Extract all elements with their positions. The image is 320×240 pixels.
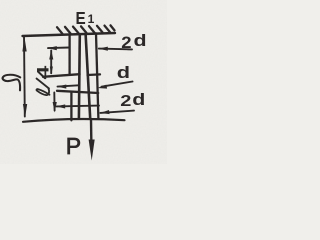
bottom box left edge: [70, 92, 72, 120]
P load line: [90, 120, 93, 146]
bar: top-left outer edge: [68, 35, 70, 74]
step shoulder line right: [88, 73, 101, 76]
paper speckle: [0, 0, 167, 164]
d right arrow tail: [102, 82, 133, 87]
d right arrowhead: [97, 85, 107, 89]
bar: right outer edge: [96, 33, 98, 118]
bar: core left line: [78, 34, 82, 118]
bottom box top edge with left extension: [57, 91, 98, 93]
lower-left dim arrowhead down: [53, 102, 57, 113]
long bottom reference line: [23, 119, 125, 122]
step shoulder line left (with extension to l/4 line): [43, 74, 80, 77]
bar: core right line: [86, 34, 91, 119]
label l/4 (rotated): [34, 66, 52, 96]
P arrowhead: [89, 140, 95, 161]
hatch strokes: [57, 27, 63, 34]
top 2d left arrowhead: [47, 46, 56, 50]
ceiling support line: [23, 33, 116, 36]
l/4 arrowhead up: [49, 50, 53, 60]
top 2d left arrow tail: [48, 47, 70, 50]
lower 2d right arrowhead: [100, 110, 110, 114]
mechanics figure: stepped bar E1 fixed to ceiling, axial load P: [0, 0, 167, 164]
l dimension vertical line: [23, 36, 26, 117]
label l (script ell, total length): [3, 75, 21, 91]
lower 2d right arrow tail: [100, 111, 134, 113]
l/4 upper dim line: [50, 51, 52, 74]
d left arrowhead: [57, 85, 66, 89]
l dim arrowhead up: [22, 37, 26, 52]
l/4 arrowhead down: [50, 67, 53, 75]
d left arrow tail: [58, 85, 79, 86]
lower-left dim line: [53, 93, 55, 111]
lower 2d left arrowhead: [56, 104, 65, 108]
l dim arrowhead down: [23, 104, 27, 117]
lower 2d left arrow tail: [57, 105, 100, 108]
top 2d right arrow tail: [99, 48, 132, 51]
top 2d right arrowhead: [99, 47, 108, 51]
